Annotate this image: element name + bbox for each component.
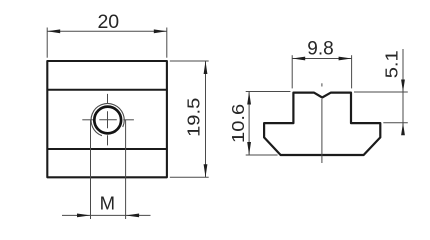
dimension 5.1: dimension line bbox=[402, 49, 404, 133]
svg-text:9.8: 9.8 bbox=[307, 39, 333, 60]
dimension 10.6: dimension line bbox=[248, 92, 250, 156]
dimension M: arrowhead right (outside, pointing left) bbox=[126, 214, 140, 218]
dimension 20: dimension line bbox=[47, 30, 167, 32]
dimension M: extension line left bbox=[90, 120, 92, 219]
centerline vertical of hole bbox=[107, 94, 109, 145]
dimension 19.5: extension line top bbox=[170, 60, 209, 62]
upper edge line (step) bbox=[47, 89, 167, 91]
dimension 19.5: extension line bottom bbox=[170, 176, 209, 178]
svg-text:M: M bbox=[100, 193, 115, 214]
dimension 9.8: extension line left bbox=[291, 55, 293, 88]
dimension 9.8: arrowhead left bbox=[292, 57, 305, 61]
dimension 9.8: extension line right bbox=[351, 55, 353, 88]
dimension 9.8: arrowhead right bbox=[339, 57, 352, 61]
dimension 20: arrowhead right bbox=[154, 29, 167, 33]
dimension 10.6: arrowhead bottom bbox=[247, 142, 251, 155]
dimension 20: extension line left bbox=[46, 28, 48, 58]
dimension 20: arrowhead left bbox=[47, 29, 60, 33]
dimension M: arrowhead left (outside, pointing right) bbox=[77, 214, 91, 218]
dimension 9.8: dimension line bbox=[292, 58, 351, 60]
dimension 19.5: dimension line bbox=[205, 61, 207, 177]
svg-text:5.1: 5.1 bbox=[382, 50, 401, 78]
dimension 10.6: extension line bottom bbox=[246, 154, 278, 156]
dimension 5.1: extension line bottom bbox=[383, 122, 408, 124]
dimension M: dimension line bbox=[62, 214, 151, 216]
dimension 19.5: arrowhead top bbox=[204, 61, 208, 74]
svg-text:20: 20 bbox=[97, 11, 119, 33]
lower edge line (step) bbox=[47, 148, 167, 150]
dimension 20: extension line right bbox=[166, 28, 168, 58]
thread arc (3/4 circle) bbox=[91, 104, 124, 136]
dimension 10.6: arrowhead top bbox=[247, 92, 251, 105]
tapped hole circle bbox=[94, 107, 121, 134]
dimension M: extension line right bbox=[125, 120, 127, 219]
svg-text:10.6: 10.6 bbox=[228, 104, 247, 143]
dimension 10.6: extension line top bbox=[246, 91, 291, 93]
svg-text:19.5: 19.5 bbox=[184, 98, 203, 137]
centerline horizontal of hole bbox=[82, 119, 134, 121]
dimension 19.5: arrowhead bottom bbox=[204, 164, 208, 177]
dimension 5.1: arrowhead top (outside, pointing down) bbox=[401, 80, 405, 93]
vertical centerline of profile bbox=[321, 83, 323, 163]
dimension 5.1: extension line top bbox=[354, 91, 408, 93]
body outline rectangle bbox=[47, 61, 167, 177]
dimension 5.1: arrowhead bottom (outside, pointing up) bbox=[401, 123, 405, 136]
T-profile outline bbox=[264, 93, 380, 155]
